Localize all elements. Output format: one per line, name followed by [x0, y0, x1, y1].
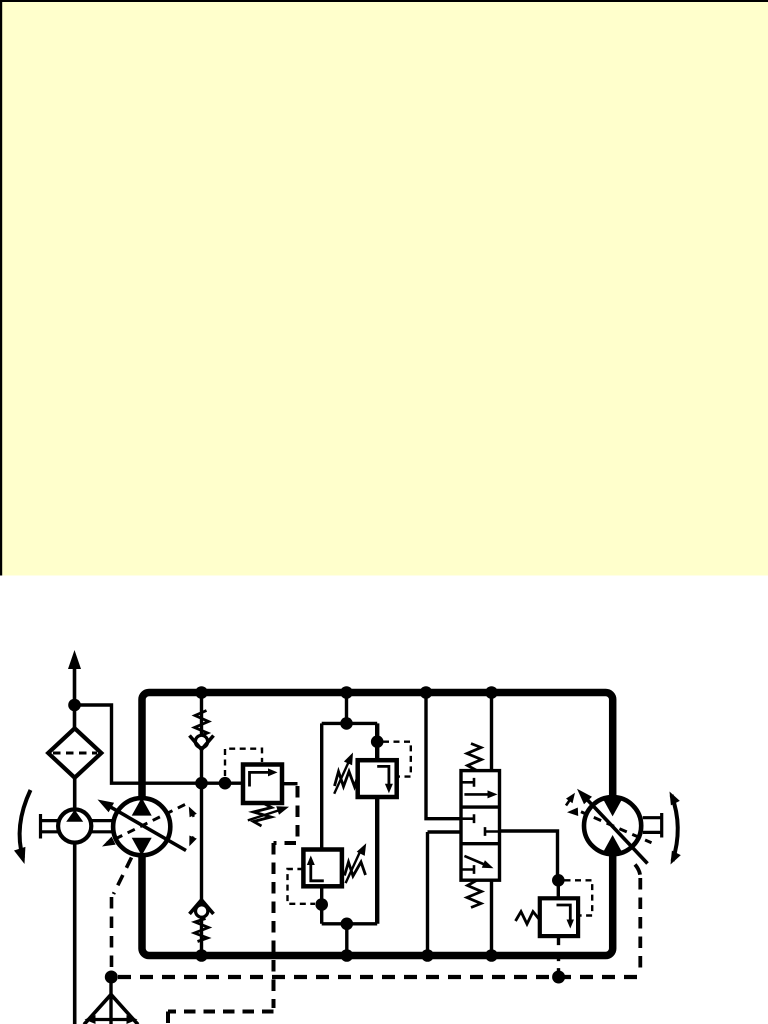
motor case drain dashed — [635, 865, 640, 974]
node RV3 pilot junction — [315, 898, 328, 911]
wire from filter node to check-valve line — [75, 705, 244, 783]
drive shaft left — [41, 814, 114, 839]
motor output shaft — [643, 813, 662, 838]
node branch bottom — [341, 918, 354, 931]
node bottom line junctions — [195, 949, 498, 962]
RV3 adjustable spring — [345, 843, 367, 883]
wire left branch — [322, 723, 378, 923]
node drain junction right — [552, 971, 565, 984]
RV4 drain dashed — [557, 936, 560, 971]
RV4 pilot dashed — [565, 880, 593, 915]
wire junction to RV4 — [557, 880, 560, 898]
pump displacement arrow — [98, 800, 187, 851]
wire check valve column — [200, 693, 203, 956]
motor control dashed diagonal — [567, 808, 652, 843]
variable motor M1 — [584, 797, 641, 854]
RV1 drain dashed to tank — [168, 786, 298, 1024]
node relief pilot junction — [219, 777, 232, 790]
cross relief valve RV3 — [303, 850, 342, 887]
node arrow to tank (charge relief out) — [68, 650, 81, 669]
charge relief valve RV1 — [243, 765, 298, 804]
check valve CV2 — [190, 900, 214, 942]
RV1 pilot dashed — [225, 749, 262, 776]
wire DV1 right port to flushing relief — [500, 831, 558, 880]
pump over-centre small arrows — [189, 807, 197, 847]
wire charge supply vertical — [73, 663, 77, 1024]
RV2 adjustable spring — [334, 753, 358, 794]
slide background — [0, 0, 768, 576]
variable pump P1 — [113, 798, 170, 856]
motor displacement arrow — [577, 789, 648, 864]
DV1 spring bottom — [467, 880, 482, 907]
node RV2 pilot junction — [371, 735, 384, 748]
cross relief valve RV2 — [358, 760, 397, 797]
DV1 top cell symbols — [461, 778, 498, 799]
input rotation curved arrow — [14, 790, 31, 864]
check valve CV1 — [190, 711, 214, 750]
charge pump P2 — [58, 809, 91, 842]
wire flushing valve top and bottom ports — [490, 693, 493, 956]
filter F1 — [48, 728, 101, 777]
cooler / tank symbol — [84, 977, 138, 1024]
wire cross-relief branch top — [322, 693, 378, 724]
node charge line junction — [195, 777, 208, 790]
main drain dashed line — [118, 975, 637, 979]
node junction above filter — [68, 699, 81, 712]
node flushing relief junction — [552, 874, 565, 887]
wire flushing valve left ports — [426, 693, 461, 956]
motor rotation curved arrow — [670, 792, 681, 865]
pump case drain dashed — [112, 858, 132, 972]
wire branch bottom stub — [345, 924, 348, 956]
RV3 pilot dashed — [288, 869, 316, 904]
DV1 middle cell symbols — [461, 814, 500, 836]
node drain junction left — [105, 971, 118, 984]
RV2 pilot dashed — [383, 742, 411, 777]
wire right branch — [375, 723, 379, 923]
motor over-centre small arrow — [566, 793, 575, 806]
pump control dashed diagonal — [102, 805, 185, 847]
directional flushing valve DV1 body — [461, 771, 500, 881]
RV4 spring — [516, 912, 540, 924]
node top line junctions — [195, 686, 498, 699]
flushing relief valve RV4 — [540, 898, 578, 936]
DV1 spring top — [467, 744, 482, 771]
node branch top — [340, 717, 353, 730]
main loop thick lines — [142, 693, 613, 956]
RV1 adjustable spring — [248, 803, 289, 826]
DV1 bottom cell symbols — [461, 856, 494, 874]
